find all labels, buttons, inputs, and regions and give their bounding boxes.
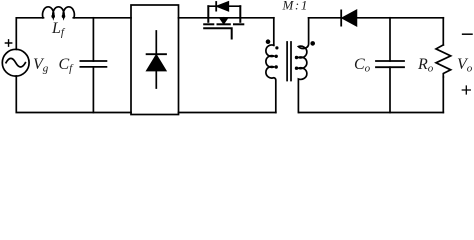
svg-text:M:1: M:1 (282, 0, 309, 13)
